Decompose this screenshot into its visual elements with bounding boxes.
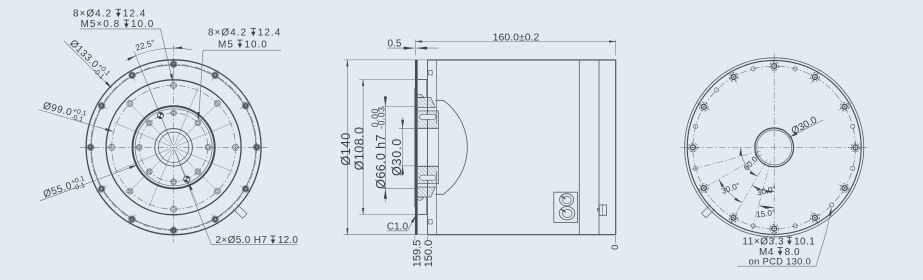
22.5 deg angular dimension arc (126, 48, 192, 60)
bore lines D30 (415, 127, 439, 129)
svg-text:160.0±0.2: 160.0±0.2 (493, 31, 540, 43)
outer rim circle (685, 58, 864, 237)
small notch bottom (429, 220, 433, 224)
small through holes at 15+30k (851, 124, 855, 128)
bolt circle D55 (139, 113, 208, 182)
terminal box (554, 192, 578, 222)
svg-text:8×Ø4.2: 8×Ø4.2 (208, 28, 247, 39)
body circle D108 (106, 80, 241, 215)
middle view: side section (339, 31, 621, 267)
connector tab on rim lower-right (233, 205, 247, 219)
svg-text:on PCD 130.0: on PCD 130.0 (749, 255, 812, 266)
label D30.0 with leader (789, 120, 823, 137)
hub circle D66 thick (133, 106, 215, 188)
rear plug (599, 205, 606, 215)
label D99.0 +0.1/-0.1 (39, 110, 113, 132)
stator band lower (hatched) (416, 187, 435, 197)
winding dome (435, 100, 467, 194)
svg-text:Ø140: Ø140 (339, 132, 353, 166)
svg-text:Ø30.0: Ø30.0 (390, 138, 404, 176)
flange front face thick line (415, 60, 417, 235)
PCD 130 circle (693, 66, 856, 229)
8 tapped holes on D55 BC (205, 144, 211, 150)
svg-text:M5×0.8: M5×0.8 (81, 19, 121, 30)
baseline dims 159.5 / 150.0 / 0 (414, 236, 416, 241)
svg-text:Ø108.0: Ø108.0 (353, 127, 367, 171)
outer circle D140 (687, 60, 861, 234)
12 M4 holes on PCD130 (848, 146, 863, 148)
svg-text:M5: M5 (218, 39, 234, 50)
outer circle D140 (86, 60, 261, 235)
8 tapped holes on D99 BC (232, 144, 238, 150)
rotor protruding face (414, 88, 416, 207)
seal lip curl lower (416, 197, 424, 200)
dim D30.0 (399, 127, 415, 129)
dowel arrow on spoke (188, 182, 192, 190)
svg-text:10.0: 10.0 (244, 39, 267, 50)
svg-text:10.0: 10.0 (131, 19, 154, 30)
extended spoke 112.5 deg to angle dim (134, 51, 173, 144)
neck D108 edges (417, 79, 427, 81)
bolt circle D133 (91, 64, 257, 230)
label D55.0 +0.1/-0.1 (40, 165, 136, 200)
dim D108.0 (359, 79, 417, 81)
front cover lines (436, 60, 438, 123)
inner circle (158, 132, 188, 162)
30 deg arc 240-270 (752, 186, 774, 192)
screw hole slot lower (420, 175, 436, 180)
extended spoke 292.5 deg to dowel label (175, 150, 212, 244)
svg-text:150.0: 150.0 (423, 240, 435, 268)
screw hole slot upper (420, 114, 436, 119)
spokes to holes in lower-left sector (689, 151, 761, 170)
rim circle (91, 65, 256, 230)
stator band upper (hatched) (416, 98, 435, 108)
svg-text:8×Ø4.2: 8×Ø4.2 (73, 9, 112, 20)
svg-text:11×Ø3.3: 11×Ø3.3 (742, 236, 784, 247)
dim 160.0 +-0.2 (414, 40, 416, 56)
svg-text:10.1: 10.1 (794, 236, 815, 247)
hub inner circle (135, 109, 212, 186)
15 deg arc 255-270 (759, 205, 775, 207)
label D133.0 +0.1/-0.1 (64, 41, 111, 87)
60 deg arc 180-240 (741, 147, 758, 176)
terminal 1 (560, 194, 574, 206)
2 dowel pin holes D5 H7 (157, 112, 163, 118)
center bore D30 (755, 128, 794, 167)
bolt circle D99 (112, 85, 236, 209)
bore rear edge (438, 128, 440, 166)
left view: front face of motor flange (39, 9, 299, 247)
svg-text:0: 0 (610, 245, 621, 250)
svg-text:-0.03: -0.03 (376, 106, 386, 129)
svg-text:12.4: 12.4 (258, 28, 281, 39)
connector tab lower-left (702, 205, 715, 218)
centerline vertical (773, 53, 775, 242)
centerline vertical (173, 45, 175, 243)
seal lip curl upper (416, 94, 424, 97)
right view: rear face (680, 53, 868, 266)
dim D66.0 h7 0/-0.03 (382, 106, 415, 108)
30 deg arc 210-240 (719, 179, 742, 202)
svg-text:Ø66.0 h7: Ø66.0 h7 (374, 134, 388, 189)
centerline horizontal (80, 146, 268, 148)
radial spokes every 22.5 deg (176, 123, 233, 147)
rotor block lower (hatched) (416, 166, 438, 183)
body outline (428, 59, 616, 61)
svg-text:12.4: 12.4 (123, 9, 146, 20)
svg-text:159.5: 159.5 (411, 240, 423, 268)
bore circle D30 (155, 129, 193, 167)
centerline horizontal (680, 146, 868, 148)
terminal 2 (559, 207, 575, 220)
rotor block upper (hatched) (416, 111, 438, 128)
dim D140 (344, 59, 428, 61)
12 tapped holes on D133 BC (250, 146, 263, 148)
small notch top (429, 71, 433, 75)
hub front corner lines (425, 80, 427, 98)
inner verticals rear (578, 60, 580, 235)
